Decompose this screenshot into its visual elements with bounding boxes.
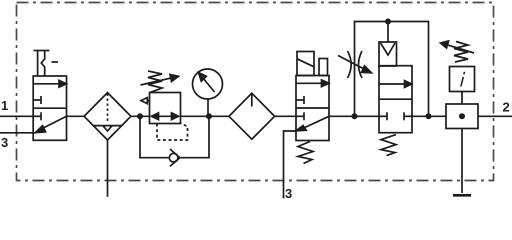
wire bypass return xyxy=(180,116,209,157)
valve V2 solenoid xyxy=(297,52,314,76)
svg-text:1: 1 xyxy=(1,98,8,113)
valve V2 manual override xyxy=(319,59,328,76)
pressure gauge G1 xyxy=(193,69,223,116)
check valve C1 (non-return) xyxy=(169,149,180,166)
wire F2 to V2 xyxy=(274,115,296,117)
wire F1 to regulator xyxy=(131,115,150,117)
wire V1 out to F1 xyxy=(67,115,85,117)
node junction in block xyxy=(459,113,465,119)
filter F1 water separator xyxy=(84,93,131,140)
wire bypass branch xyxy=(140,116,169,157)
svg-text:3: 3 xyxy=(285,186,292,200)
regulator R1 vent triangle xyxy=(141,98,150,104)
regulator R1 pilot line (dashed) xyxy=(157,124,188,141)
enclosure boundary (dash-dot frame) xyxy=(17,3,494,181)
valve V2 return spring xyxy=(298,142,313,164)
wire pilot branch up with throttle xyxy=(355,22,429,117)
pressure switch S1 sensor xyxy=(450,67,475,92)
regulator R1 body xyxy=(150,93,181,124)
valve V1 manual slide actuator with detent xyxy=(34,51,59,77)
wire V2 to V3 xyxy=(329,115,379,117)
valve V3 return spring xyxy=(381,135,396,156)
valve V1 3/2 hand slide valve body xyxy=(33,76,67,140)
valve V2 3/2 solenoid valve body xyxy=(296,76,329,141)
svg-text:2: 2 xyxy=(503,100,510,115)
node junction pilot return xyxy=(426,113,432,119)
wire sensor stem xyxy=(461,92,463,105)
wire F1 drain xyxy=(107,140,109,197)
wire V2 exhaust to port 3 xyxy=(284,131,297,198)
regulator R1 adjustable spring xyxy=(141,71,179,93)
node 3 (left exhaust port) xyxy=(0,133,36,150)
pressure switch S1 adjustable spring xyxy=(441,41,475,62)
throttle (adjustable restrictor) xyxy=(338,51,372,78)
wire end bar xyxy=(453,194,471,197)
node 1 (inlet port) xyxy=(0,98,33,116)
wire block drain down xyxy=(461,129,463,194)
node junction at bypass left xyxy=(137,113,143,119)
wire regulator to F2 xyxy=(181,115,230,117)
node junction at gauge xyxy=(206,113,212,119)
valve V3 soft-start body xyxy=(379,66,412,133)
filter F2 xyxy=(229,93,275,139)
wire V3 to S1 xyxy=(412,115,446,117)
node 2 (outlet port) xyxy=(478,100,512,117)
node junction top xyxy=(385,19,391,25)
check valve C2 in box on V3 xyxy=(379,22,397,67)
pressure switch S1 connection block xyxy=(446,104,478,129)
node junction pilot takeoff xyxy=(352,113,358,119)
svg-text:3: 3 xyxy=(1,135,8,150)
